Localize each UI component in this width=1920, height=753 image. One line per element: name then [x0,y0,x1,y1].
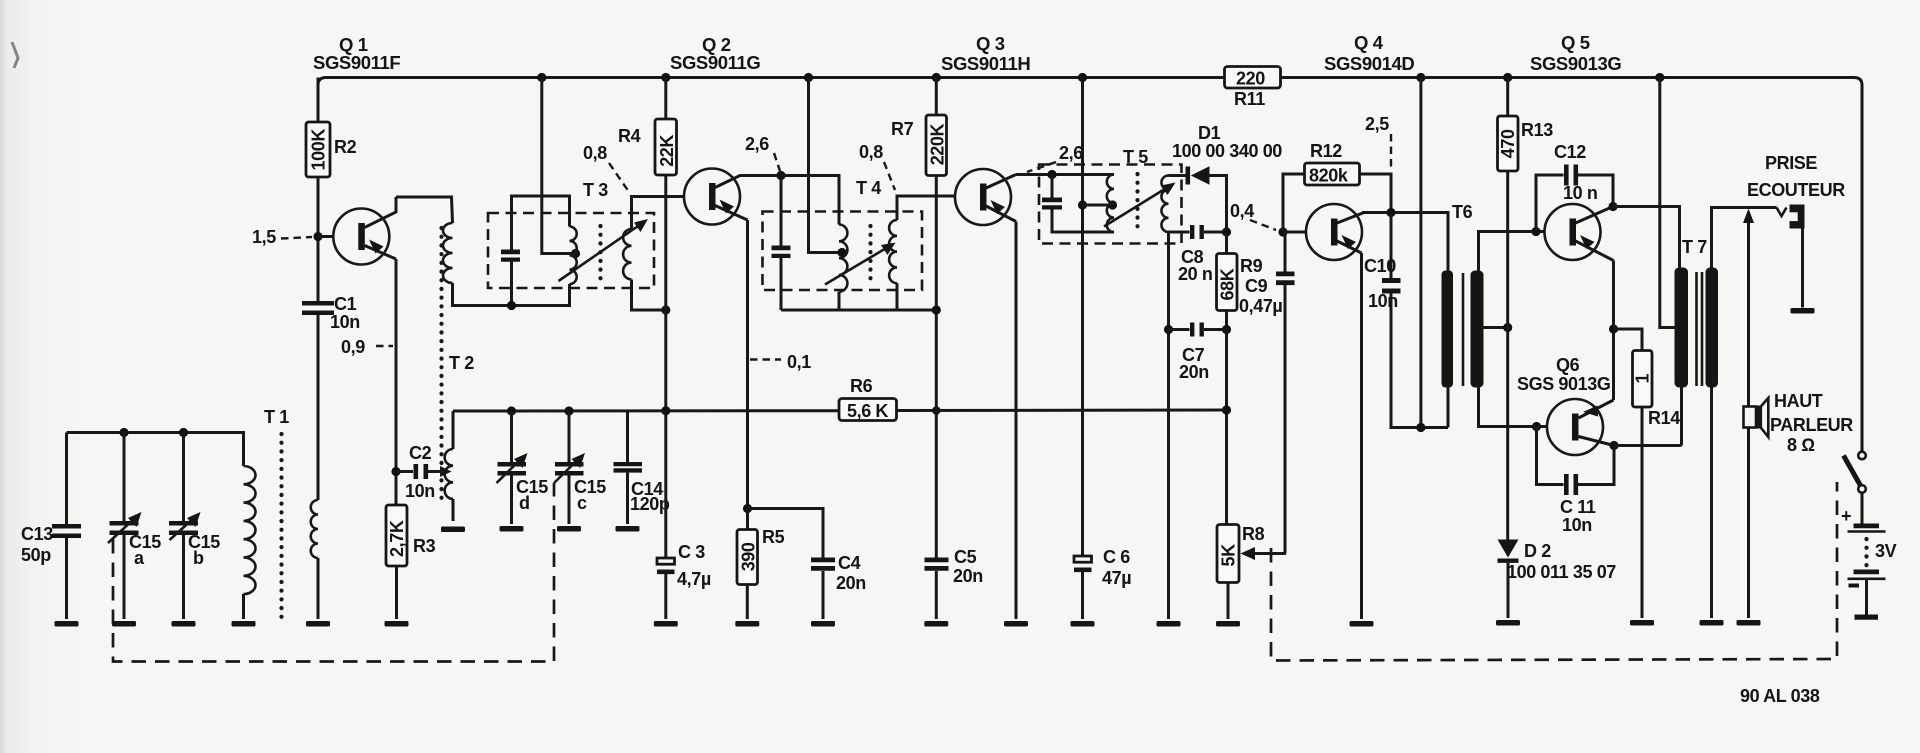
svg-text:R8: R8 [1242,524,1265,544]
mechanical gang link C15a-C15c [113,483,554,662]
svg-text:5K: 5K [1219,544,1239,567]
loudspeaker HAUT PARLEUR 8 ohm wire [1747,429,1750,619]
node Q1 base (1,5) [313,232,322,241]
resistor R14 1 part [1633,351,1653,408]
junction dot [571,249,580,258]
capacitor C7 20n part [1200,323,1204,337]
capacitor C6 47µ electrolytic [1074,556,1092,562]
junction dot [1609,324,1618,333]
wire: rail feed through T5 tap to C6 wire [1083,204,1111,207]
junction dot [507,406,516,415]
transistor Q5 wire [1576,241,1614,261]
svg-text:0,8: 0,8 [859,142,883,162]
transistor Q4 wire [1337,241,1362,253]
transistor Q6 part [1572,414,1579,441]
capacitor C3 4,7µ electrolytic part [657,570,675,575]
capacitor C11 10n wire [1537,427,1564,485]
loudspeaker HAUT PARLEUR 8 ohm part [1761,398,1769,437]
IF transformer T3 shield box [488,213,654,288]
capacitor C12 10n [1531,227,1540,236]
battery 3V part [1854,524,1880,529]
mechanical link R8 wiper to switch [1271,482,1837,661]
svg-text:2,5: 2,5 [1365,114,1389,134]
capacitor C4 20n part [811,558,835,563]
junction dot [837,248,846,257]
transformer T7 wire [1701,272,1704,386]
junction dot [507,301,516,310]
ground (R3) [385,621,409,627]
svg-text:R6: R6 [850,376,873,396]
resistor R4 22K part [655,119,677,175]
ground [55,621,79,627]
variable capacitor C15c wire [568,476,571,525]
capacitor C9 0,47µ part [1276,280,1295,285]
svg-text:100K: 100K [309,129,329,171]
variable capacitor C15a part [128,512,142,527]
svg-text:Q 4: Q 4 [1354,32,1384,53]
svg-text:SGS9011F: SGS9011F [313,52,400,73]
jack spring contact arrow part [1743,209,1754,224]
svg-text:PRISE: PRISE [1765,153,1817,173]
svg-text:50p: 50p [21,545,51,565]
svg-text:2,7K: 2,7K [387,520,407,557]
wire: rail drop to T7 primary tap [1660,78,1675,328]
junction dot [661,406,670,415]
coil T5 primary [1107,175,1114,233]
transistor Q6 part [1583,406,1598,417]
capacitor T3 tank [501,250,520,255]
resistor R5 390 and capacitor C4 wire [746,585,749,620]
capacitor C11 10n wire [1578,446,1614,485]
power switch wire [1861,493,1864,524]
core T5 [1135,174,1139,234]
junction dot [1222,405,1231,414]
leader line [1250,220,1276,230]
transformer T6 wire [1447,388,1450,428]
svg-text:220K: 220K [927,123,947,165]
svg-text:R14: R14 [1648,408,1680,428]
battery 3V part [1854,570,1880,575]
wire: rail drop to T6 primary return [1419,78,1422,428]
leader line [376,345,393,347]
coil T4 primary wire [838,292,841,310]
transformer T7 part [1675,268,1689,388]
ground [1737,620,1761,626]
capacitor C14 120p part [614,462,643,466]
capacitor C13 50p part [52,524,81,529]
leader line [1027,162,1056,172]
resistor R13 470 [1506,78,1509,117]
svg-text:R13: R13 [1521,120,1553,140]
svg-text:0,4: 0,4 [1230,201,1254,221]
svg-text:SGS9014D: SGS9014D [1324,53,1414,74]
resistor R12 820k feedback [1283,174,1305,232]
wire: Q1 collector to T2 primary [396,197,453,223]
top supply rail [318,78,1225,86]
capacitor C3 4,7µ electrolytic wire [664,574,667,619]
capacitor C12 10n part [1564,165,1569,186]
junction dot [1416,423,1425,432]
svg-text:390: 390 [738,542,758,571]
svg-text:D1: D1 [1198,123,1221,143]
transistor Q6 wire [1579,400,1614,418]
jack symbol wire [1801,228,1804,308]
battery 3V part [1848,577,1886,580]
wire: base lead [318,235,334,238]
coil T4 primary [839,225,847,292]
transistor Q1 wire [365,246,397,260]
battery 3V part [1855,615,1879,620]
ground [1157,621,1181,627]
capacitor C9 0,47µ wire [1283,232,1285,272]
junction dot [1108,200,1117,209]
diode D1 part [1191,166,1210,184]
ground [616,526,640,532]
svg-text:1,5: 1,5 [252,227,276,247]
diode D2 part [1498,559,1519,563]
transformer T1 primary [244,466,256,594]
capacitor T5 tank part [1042,205,1062,209]
capacitor C1 [302,301,334,306]
capacitor C10 10n [1390,213,1393,279]
wire: C1 to T1 secondary [317,315,320,500]
leader line [281,237,312,239]
svg-text:5,6 K: 5,6 K [847,401,888,421]
resistor R9 68K wire [1225,311,1228,330]
transformer T6 wire [1462,273,1465,386]
leader line [1390,134,1392,170]
junction dot [1386,208,1395,217]
variable capacitor C15d wire [510,476,513,525]
svg-text:8 Ω: 8 Ω [1787,435,1815,455]
svg-text:3V: 3V [1875,541,1897,561]
tuning arrow T3 [559,224,642,281]
variable capacitor C15d part [498,462,527,467]
svg-text:470: 470 [1498,129,1518,158]
capacitor C11 10n [1532,422,1541,431]
core T4 [868,226,872,286]
coil T3 secondary wire [632,280,666,311]
resistor R9 68K [1225,232,1228,254]
capacitor C10 10n part [1382,289,1401,294]
capacitor C12 10n wire [1578,175,1613,207]
jack symbol part [1790,212,1798,221]
capacitor C2 10n part [414,464,419,479]
transformer T7 part [1706,268,1719,388]
jack spring contact arrow [1747,220,1750,407]
variable capacitor C15a wire [123,535,126,619]
node: rail junction dots [537,73,546,82]
ground [500,526,524,532]
transistor Q2 wire [715,206,748,221]
capacitor C2 10n part [440,466,452,477]
transformer T2 secondary wire [452,411,455,449]
potentiometer R8 5K [1217,525,1239,583]
wire: T5 secondary bottom column [1167,232,1170,619]
variable capacitor C15d [510,411,513,462]
resistor R7 220K [935,78,938,116]
svg-text:0,47µ: 0,47µ [1239,296,1282,316]
AGC bus wire [453,409,842,412]
svg-text:10n: 10n [330,312,360,332]
junction dot [661,305,670,314]
capacitor C2 10n [396,470,413,473]
svg-text:20n: 20n [836,573,866,593]
svg-text:SGS 9013G: SGS 9013G [1517,374,1610,394]
capacitor C11 10n part [1574,474,1579,495]
diode D2 [1498,540,1519,558]
variable capacitor C15a wire [108,517,136,543]
capacitor C7 20n [1169,328,1190,331]
core [1864,539,1868,566]
svg-text:Q 3: Q 3 [976,33,1005,54]
variable capacitor C15d wire [497,458,523,483]
transistor Q5 wire [1576,207,1614,224]
wire: antenna bus [67,433,244,467]
wire: rail feed to T4 tap [809,78,841,253]
svg-text:D 2: D 2 [1524,541,1551,561]
junction dot [1078,200,1087,209]
wire: tank top to T4 primary [781,176,839,225]
wiper arrow R8 part [1241,547,1256,560]
wire: R2 to C1 [317,177,320,301]
wire: Q4 emitter to ground [1360,253,1363,619]
wiper arrow R8 [1250,552,1286,555]
junction dot [932,406,941,415]
svg-text:4,7µ: 4,7µ [677,569,711,589]
variable capacitor C15d part [514,453,528,468]
transistor Q1 [333,209,389,265]
wire: rail feed through T5 tap to C6 [1081,78,1084,557]
wire: R7 to tank bottom, AGC bus, C5 [935,176,938,558]
svg-text:C 6: C 6 [1103,547,1130,567]
svg-text:0,1: 0,1 [787,352,811,372]
wire: base lead Q4 [1283,231,1306,234]
svg-text:d: d [519,493,530,513]
transistor Q1 part [358,223,365,250]
capacitor C5 20n part [925,566,949,571]
ground [1700,620,1724,626]
junction dot [1222,325,1231,334]
transformer T6 wire [1479,388,1548,427]
variable capacitor C15a [123,433,126,522]
capacitor C12 10n part [1574,165,1579,186]
capacitor C13 50p wire [65,538,68,619]
junction dot [932,305,941,314]
tuning arrow T4 [825,247,888,285]
ground [1791,308,1815,314]
wire: R4 to T3 secondary bottom and AGC bus [664,175,667,411]
variable capacitor C15b part [169,521,198,526]
svg-text:R4: R4 [618,126,641,146]
transistor Q4 part [1342,235,1357,249]
capacitor C12 10n wire [1536,175,1564,232]
loudspeaker HAUT PARLEUR 8 ohm [1744,407,1757,428]
coil T3 secondary [623,229,631,279]
svg-text:22K: 22K [657,135,677,167]
svg-text:HAUT: HAUT [1774,391,1823,411]
variable capacitor C15b [182,433,185,522]
coil T4 secondary wire [897,196,955,220]
node T5 tank top [1047,170,1056,179]
junction dot [1078,73,1087,82]
wire: Q2 emitter column [746,220,749,509]
svg-text:c: c [577,493,587,513]
resistor R6 5,6K [839,399,897,421]
capacitor T4 tank [780,176,783,246]
capacitor C4 20n [748,509,824,558]
capacitor T5 tank [1051,175,1054,198]
core T1 [279,434,283,618]
variable capacitor C15c wire [554,458,580,483]
wire: T3 tank top [512,196,570,250]
svg-text:120p: 120p [630,494,670,514]
transformer T2 primary [443,223,453,283]
transistor Q1 part [369,240,384,254]
capacitor C9 0,47µ [1276,272,1295,277]
ground [1004,621,1028,627]
ground (T2 secondary) [441,527,465,533]
coil T3 secondary wire [632,197,685,230]
battery 3V part [1849,584,1860,588]
node Q2 collector / T4 tank [776,171,785,180]
svg-text:C9: C9 [1245,276,1268,296]
variable capacitor C15b part [169,531,198,536]
transistor Q6 wire [1579,437,1615,446]
transformer T7 wire [1695,272,1698,386]
capacitor C14 120p wire [626,473,629,524]
capacitor C8 20n [1190,225,1194,239]
capacitor C2 10n part [424,464,429,479]
wire: Q5/Q6 emitter column [1612,261,1615,401]
ground [1630,620,1654,626]
capacitor C8 20n wire [1204,231,1227,234]
capacitor C5 20n [925,558,949,563]
ground [306,621,330,627]
coil T5 secondary wire [1169,231,1190,234]
svg-text:a: a [134,548,145,568]
svg-text:C4: C4 [838,553,861,573]
variable capacitor C15c part [572,453,586,468]
transistor Q4 wire [1337,213,1364,224]
capacitor C3 4,7µ electrolytic part [657,558,675,564]
transformer T6 wire [1479,232,1545,271]
svg-text:+: + [1841,506,1851,526]
transformer T1 secondary [311,500,318,558]
AGC bus wire wire [897,409,1227,413]
svg-text:220: 220 [1236,69,1265,89]
resistor R12 820k feedback wire [1360,174,1392,213]
capacitor C10 10n wire [1391,294,1448,428]
svg-text:10n: 10n [405,481,435,501]
transformer T6 part [1471,271,1484,388]
svg-text:R2: R2 [334,137,357,157]
svg-text:b: b [193,548,204,568]
junction dot [119,428,128,437]
tuning arrow T4 part [881,243,896,256]
capacitor T5 tank wire [1052,210,1114,233]
wire: Q5 collector to T7 primary top [1613,207,1680,268]
capacitor C5 20n wire [935,571,938,619]
svg-text:T 5: T 5 [1123,147,1148,167]
capacitor C1 part [302,311,334,316]
capacitor C13 50p [65,433,68,525]
capacitor T3 tank wire [510,262,513,306]
tuning arrow T5 [1104,187,1168,227]
power switch wire [1858,485,1866,493]
capacitor C7 20n wire [1204,328,1227,331]
wire: T7 secondary top to jack [1712,208,1777,268]
svg-text:10n: 10n [1368,291,1398,311]
resistor R2 100K [306,122,330,177]
svg-text:0,8: 0,8 [583,143,607,163]
transistor Q5 part [1570,219,1577,246]
junction dot [564,406,573,415]
svg-text:SGS9011H: SGS9011H [941,53,1030,74]
resistor R3 2,7K [386,505,407,566]
svg-text:T 7: T 7 [1682,237,1707,257]
svg-text:C 3: C 3 [678,542,705,562]
junction dot [932,73,941,82]
svg-text:R5: R5 [762,527,785,547]
variable capacitor C15b wire [170,517,196,540]
power switch [1858,452,1866,460]
resistor R12 820k feedback part [1305,163,1360,185]
svg-text:47µ: 47µ [1102,568,1131,588]
core T3 [598,226,602,284]
svg-text:T 3: T 3 [583,180,608,200]
svg-text:10n: 10n [1562,515,1592,535]
tuning arrow T5 part [1161,183,1176,196]
transformer T2 secondary wire [452,499,455,521]
top supply rail wire [1280,78,1862,452]
capacitor T5 tank part [1042,198,1062,203]
junction dot [1503,323,1512,332]
svg-text:C1: C1 [334,294,357,314]
svg-text:C 11: C 11 [1560,497,1596,517]
capacitor T4 tank part [772,254,791,258]
transistor Q4 part [1331,219,1338,246]
core T2 [439,228,443,500]
variable capacitor C15b wire [182,535,185,619]
transistor Q6 wire [1547,399,1603,455]
ground [1071,621,1095,627]
svg-text:C10: C10 [1364,256,1396,276]
variable capacitor C15c part [555,462,584,467]
svg-text:T6: T6 [1452,202,1473,222]
IF transformer T5 shield box [1039,165,1182,244]
transformer T6 part [1442,271,1454,388]
resistor R13 470 part [1498,116,1519,171]
variable capacitor C15c [568,411,571,462]
transistor Q3 wire [986,175,1016,189]
wiper arrow R8 wire [1284,285,1287,554]
variable capacitor C15c part [555,471,584,476]
leader line [750,358,781,360]
capacitor C4 20n wire [822,571,825,619]
jack break contact [1777,208,1787,217]
transistor Q5 part [1580,235,1595,249]
svg-text:Q6: Q6 [1556,355,1580,375]
capacitor T3 tank part [501,258,520,262]
svg-text:820k: 820k [1309,166,1349,186]
capacitor C13 50p part [52,534,81,539]
capacitor C3 4,7µ electrolytic [664,411,667,558]
resistor R5 390 and capacitor C4 wire [746,509,749,530]
svg-text:SGS9013G: SGS9013G [1530,53,1621,74]
capacitor C14 120p [626,411,629,462]
junction dot [1222,227,1231,236]
